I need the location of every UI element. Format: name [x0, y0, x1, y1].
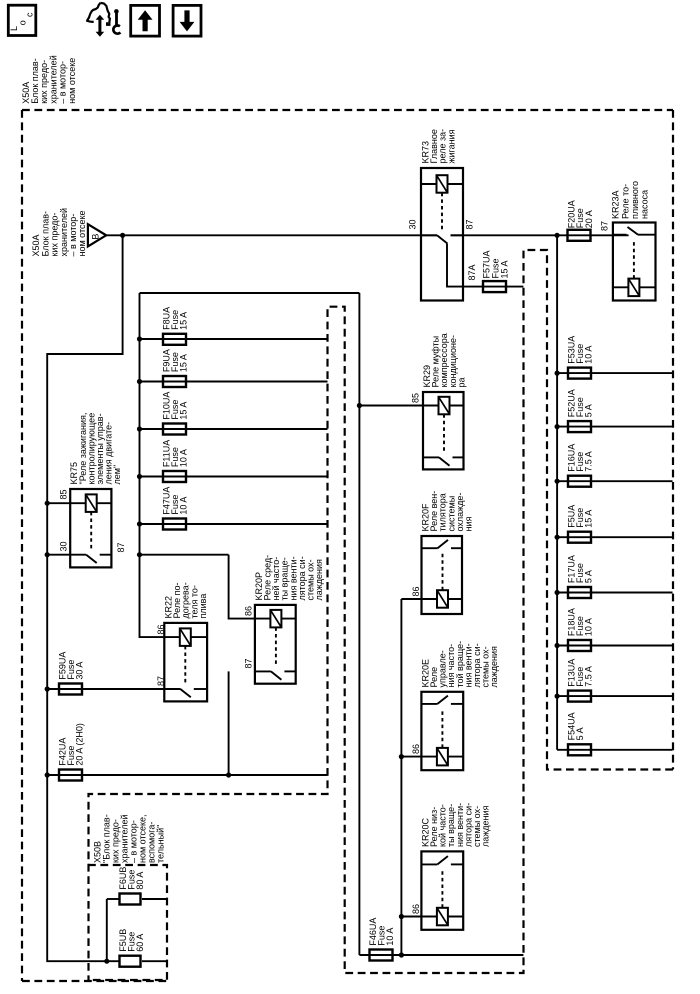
svg-text:10 A: 10 A [179, 449, 189, 467]
pin 86 KR20P [244, 606, 254, 616]
svg-text:лаждения: лаждения [489, 646, 499, 688]
svg-text:10 A: 10 A [584, 346, 594, 364]
pin 87A KR73 [467, 264, 477, 280]
svg-text:ра: ра [456, 377, 466, 387]
wire: KR20P 86 drop [229, 555, 255, 619]
svg-text:30: 30 [407, 219, 417, 229]
wire: F5UB continue right [142, 960, 168, 962]
svg-text:86: 86 [156, 624, 166, 634]
junction at (139.5,429) [137, 426, 142, 431]
fuse F52UA [567, 389, 594, 417]
wire: bus top edge [140, 292, 360, 294]
wire: left fuse row y=339 [140, 338, 328, 340]
relay KR29 [422, 333, 466, 387]
wire: F6UB left link [107, 898, 119, 900]
svg-text:15 A: 15 A [179, 312, 189, 330]
fuse F46UA [368, 918, 395, 946]
pin 87 KR75 [116, 542, 126, 552]
icon adjustment (outline + double arrow + wrench) [100, 3, 110, 25]
wire: bus cross to KR20P column [140, 554, 229, 556]
svg-text:B: B [90, 234, 100, 240]
svg-text:20 A (2H0): 20 A (2H0) [75, 723, 85, 766]
pin 87 KR73 [464, 219, 474, 229]
junction at (557.1,696.1) [555, 694, 560, 699]
pin 87 KR20P [244, 658, 254, 668]
svg-text:Реле то-: Реле то- [620, 184, 630, 219]
junction at (47.2,775) [45, 772, 50, 777]
svg-text:87: 87 [464, 219, 474, 229]
wire: left drop from junction [47, 235, 122, 961]
wire: right fuse row y=426.6 [557, 426, 672, 428]
pin 86 KR22 [156, 624, 166, 634]
svg-text:7.5 A: 7.5 A [584, 451, 594, 472]
wire: left fuse row y=476.5 [140, 476, 328, 478]
svg-text:87: 87 [600, 221, 610, 231]
junction at (139.5,476.5) [137, 474, 142, 479]
svg-text:плива: плива [198, 594, 208, 619]
junction at (47.2,689) [45, 686, 50, 691]
wire: KR73 87 output to KR23A [451, 234, 629, 236]
svg-text:7.5 A: 7.5 A [584, 666, 594, 687]
fuse F5UB [118, 929, 145, 952]
relay KR20F [421, 491, 474, 532]
svg-text:15 A: 15 A [584, 510, 594, 528]
svg-text:80 A: 80 A [135, 872, 145, 890]
junction at (139.5,524) [137, 521, 142, 526]
fuse F17UA [567, 555, 594, 583]
junction at (557.1,373.1) [555, 371, 560, 376]
connector X50A outer dashed boundary [22, 109, 673, 111]
fuse F9UA [162, 349, 189, 372]
junction at (228.6,775) [226, 772, 231, 777]
wire: F42UA row [47, 774, 327, 776]
wire: bus left vertical [139, 293, 141, 555]
wire: KR73 87A to F57UA to dashed bus [447, 244, 523, 287]
fuse F59UA [58, 652, 85, 680]
junction at (139.5,381.5) [137, 379, 142, 384]
svg-text:30 A: 30 A [75, 662, 85, 680]
svg-text:5 A: 5 A [575, 727, 585, 740]
wire: KR75 30 feed [47, 554, 70, 556]
svg-text:пливного: пливного [630, 181, 640, 219]
fuse F10UA [162, 392, 189, 420]
junction at (359.4,405.5) [357, 403, 362, 408]
svg-text:10 A: 10 A [179, 497, 189, 515]
pin 87 KR22 [156, 676, 166, 686]
junction at (557.1,426.6) [555, 424, 560, 429]
pin 86 KR20E [411, 744, 421, 754]
fuse F8UA [162, 307, 189, 330]
svg-text:86: 86 [411, 904, 421, 914]
junction at (557.1,537.2) [555, 535, 560, 540]
svg-text:ном отсеке: ном отсеке [67, 58, 77, 104]
fuse F57UA [483, 281, 506, 292]
junction at (401.4,955) [399, 952, 404, 957]
junction at (557.1,235.3) [555, 233, 560, 238]
pin 30 KR73 [407, 219, 417, 229]
svg-text:15 A: 15 A [179, 402, 189, 420]
junction at (557.1,645.5) [555, 643, 560, 648]
wire: left fuse row y=429 [140, 428, 328, 430]
svg-text:лаждения: лаждения [481, 805, 491, 847]
fuse F53UA [567, 336, 594, 364]
pin 86 KR20C [411, 904, 421, 914]
wire: KR20x 86 bus [400, 599, 402, 955]
pin 87 KR23A [600, 221, 610, 231]
junction at (401.4,916.5) [399, 914, 404, 919]
junction at (139.5,554.7) [137, 552, 142, 557]
junction at (106.8,961.2) [104, 959, 109, 964]
svg-text:30: 30 [59, 541, 69, 551]
svg-text:87: 87 [244, 658, 254, 668]
wire: right fuse row y=696.1 [557, 695, 672, 697]
svg-text:86: 86 [411, 586, 421, 596]
wire: F59UA row into KR22 [47, 688, 180, 690]
svg-text:15 A: 15 A [179, 354, 189, 372]
wire: right fuse row y=749.8 [557, 749, 672, 751]
wire: right fuse row y=537.2 [557, 536, 672, 538]
svg-text:c: c [24, 12, 34, 17]
relay KR73 [421, 129, 457, 164]
wire: left fuse row y=524 [140, 523, 328, 525]
wire: KR20C 86 stub [401, 916, 421, 918]
svg-text:85: 85 [59, 489, 69, 499]
wire: KR20E 86 stub [401, 756, 421, 758]
wire: KR75 85 feed [47, 502, 70, 504]
junction at (557.1,481.2) [555, 479, 560, 484]
svg-text:5 A: 5 A [584, 404, 594, 417]
wire: F46UA row [359, 954, 523, 956]
junction at (557.1,592.5) [555, 590, 560, 595]
junction at (47.2,554.7) [45, 552, 50, 557]
fuse F6UB [118, 867, 145, 890]
relay KR23A [611, 181, 650, 219]
svg-text:жигания: жигания [446, 129, 456, 163]
svg-text:10 A: 10 A [385, 928, 395, 946]
svg-text:L: L [9, 26, 19, 31]
svg-text:o: o [17, 20, 27, 25]
icon up-arrow box [131, 5, 160, 36]
junction at (122.6,235.3) [120, 233, 125, 238]
fuse F13UA [567, 659, 594, 687]
fuse F16UA [567, 444, 594, 472]
wire: KR20F 86 stub [401, 598, 421, 600]
wire: F6UB right [142, 898, 168, 900]
pin 86 KR20F [411, 586, 421, 596]
pin 85 KR29 [411, 393, 421, 403]
relay KR20C [420, 803, 490, 847]
svg-text:тельный": тельный" [156, 825, 166, 863]
svg-text:87A: 87A [467, 264, 477, 280]
svg-text:10 A: 10 A [584, 618, 594, 636]
wrench [114, 9, 119, 14]
svg-text:5 A: 5 A [584, 570, 594, 583]
fuse F20UA [568, 230, 591, 241]
wire: KR29 85 feed [359, 405, 423, 407]
wire: right fuse row y=645.5 [557, 645, 672, 647]
junction at (401.4,756.6) [399, 754, 404, 759]
icon LOC hyperlink box [8, 5, 36, 35]
svg-text:87: 87 [156, 676, 166, 686]
relay KR20E [420, 641, 499, 688]
svg-text:15 A: 15 A [499, 260, 509, 278]
svg-text:насоса: насоса [640, 190, 650, 219]
wire: KR20P 87 drop to F42UA row [228, 671, 230, 775]
svg-text:85: 85 [411, 393, 421, 403]
fuse F42UA [58, 723, 85, 766]
svg-text:ном отсеке: ном отсеке [77, 210, 87, 256]
icon down-arrow box [173, 5, 201, 36]
fuse F11UA [162, 440, 189, 467]
label X50A (at connector B) [31, 208, 87, 257]
wire: right fuse row y=373.1 [557, 372, 672, 374]
svg-text:20 A: 20 A [584, 210, 594, 228]
wire: right fuse column bus [556, 235, 558, 750]
wire: bus right vertical [358, 293, 360, 955]
connector X50B dashed box [88, 865, 167, 980]
relay KR75 [69, 413, 122, 485]
svg-text:87: 87 [116, 542, 126, 552]
svg-text:KR23A: KR23A [611, 190, 621, 219]
wire: bus down to KR22 86 [140, 555, 165, 637]
fuse F18UA [567, 608, 594, 636]
wire: right fuse row y=592.5 [557, 592, 672, 594]
svg-text:86: 86 [244, 606, 254, 616]
label X50B [93, 814, 166, 863]
wire: right fuse row y=481.2 [557, 480, 672, 482]
fuse F47UA [162, 487, 189, 515]
relay KR20P [254, 555, 324, 601]
fuse F5UA [567, 505, 594, 528]
svg-text:60 A: 60 A [135, 934, 145, 952]
pin 85 KR75 [59, 489, 69, 499]
svg-text:86: 86 [411, 744, 421, 754]
junction at (139.5,339) [137, 336, 142, 341]
connector B triangle [88, 224, 106, 246]
junction at (47.2,503.2) [45, 501, 50, 506]
pin 30 KR75 [59, 541, 69, 551]
connector X50A internal dashed boundary (snake) [89, 250, 674, 980]
label X50A (top-left) [21, 55, 77, 104]
svg-text:лем": лем" [112, 465, 122, 485]
svg-text:ния: ния [464, 517, 474, 532]
wire: left fuse row y=381.5 [140, 381, 328, 383]
fuse F54UA [567, 712, 586, 740]
relay KR22 [164, 582, 208, 618]
wire: B feed to KR73 pin30 [106, 234, 437, 236]
svg-text:лаждения: лаждения [314, 559, 324, 601]
